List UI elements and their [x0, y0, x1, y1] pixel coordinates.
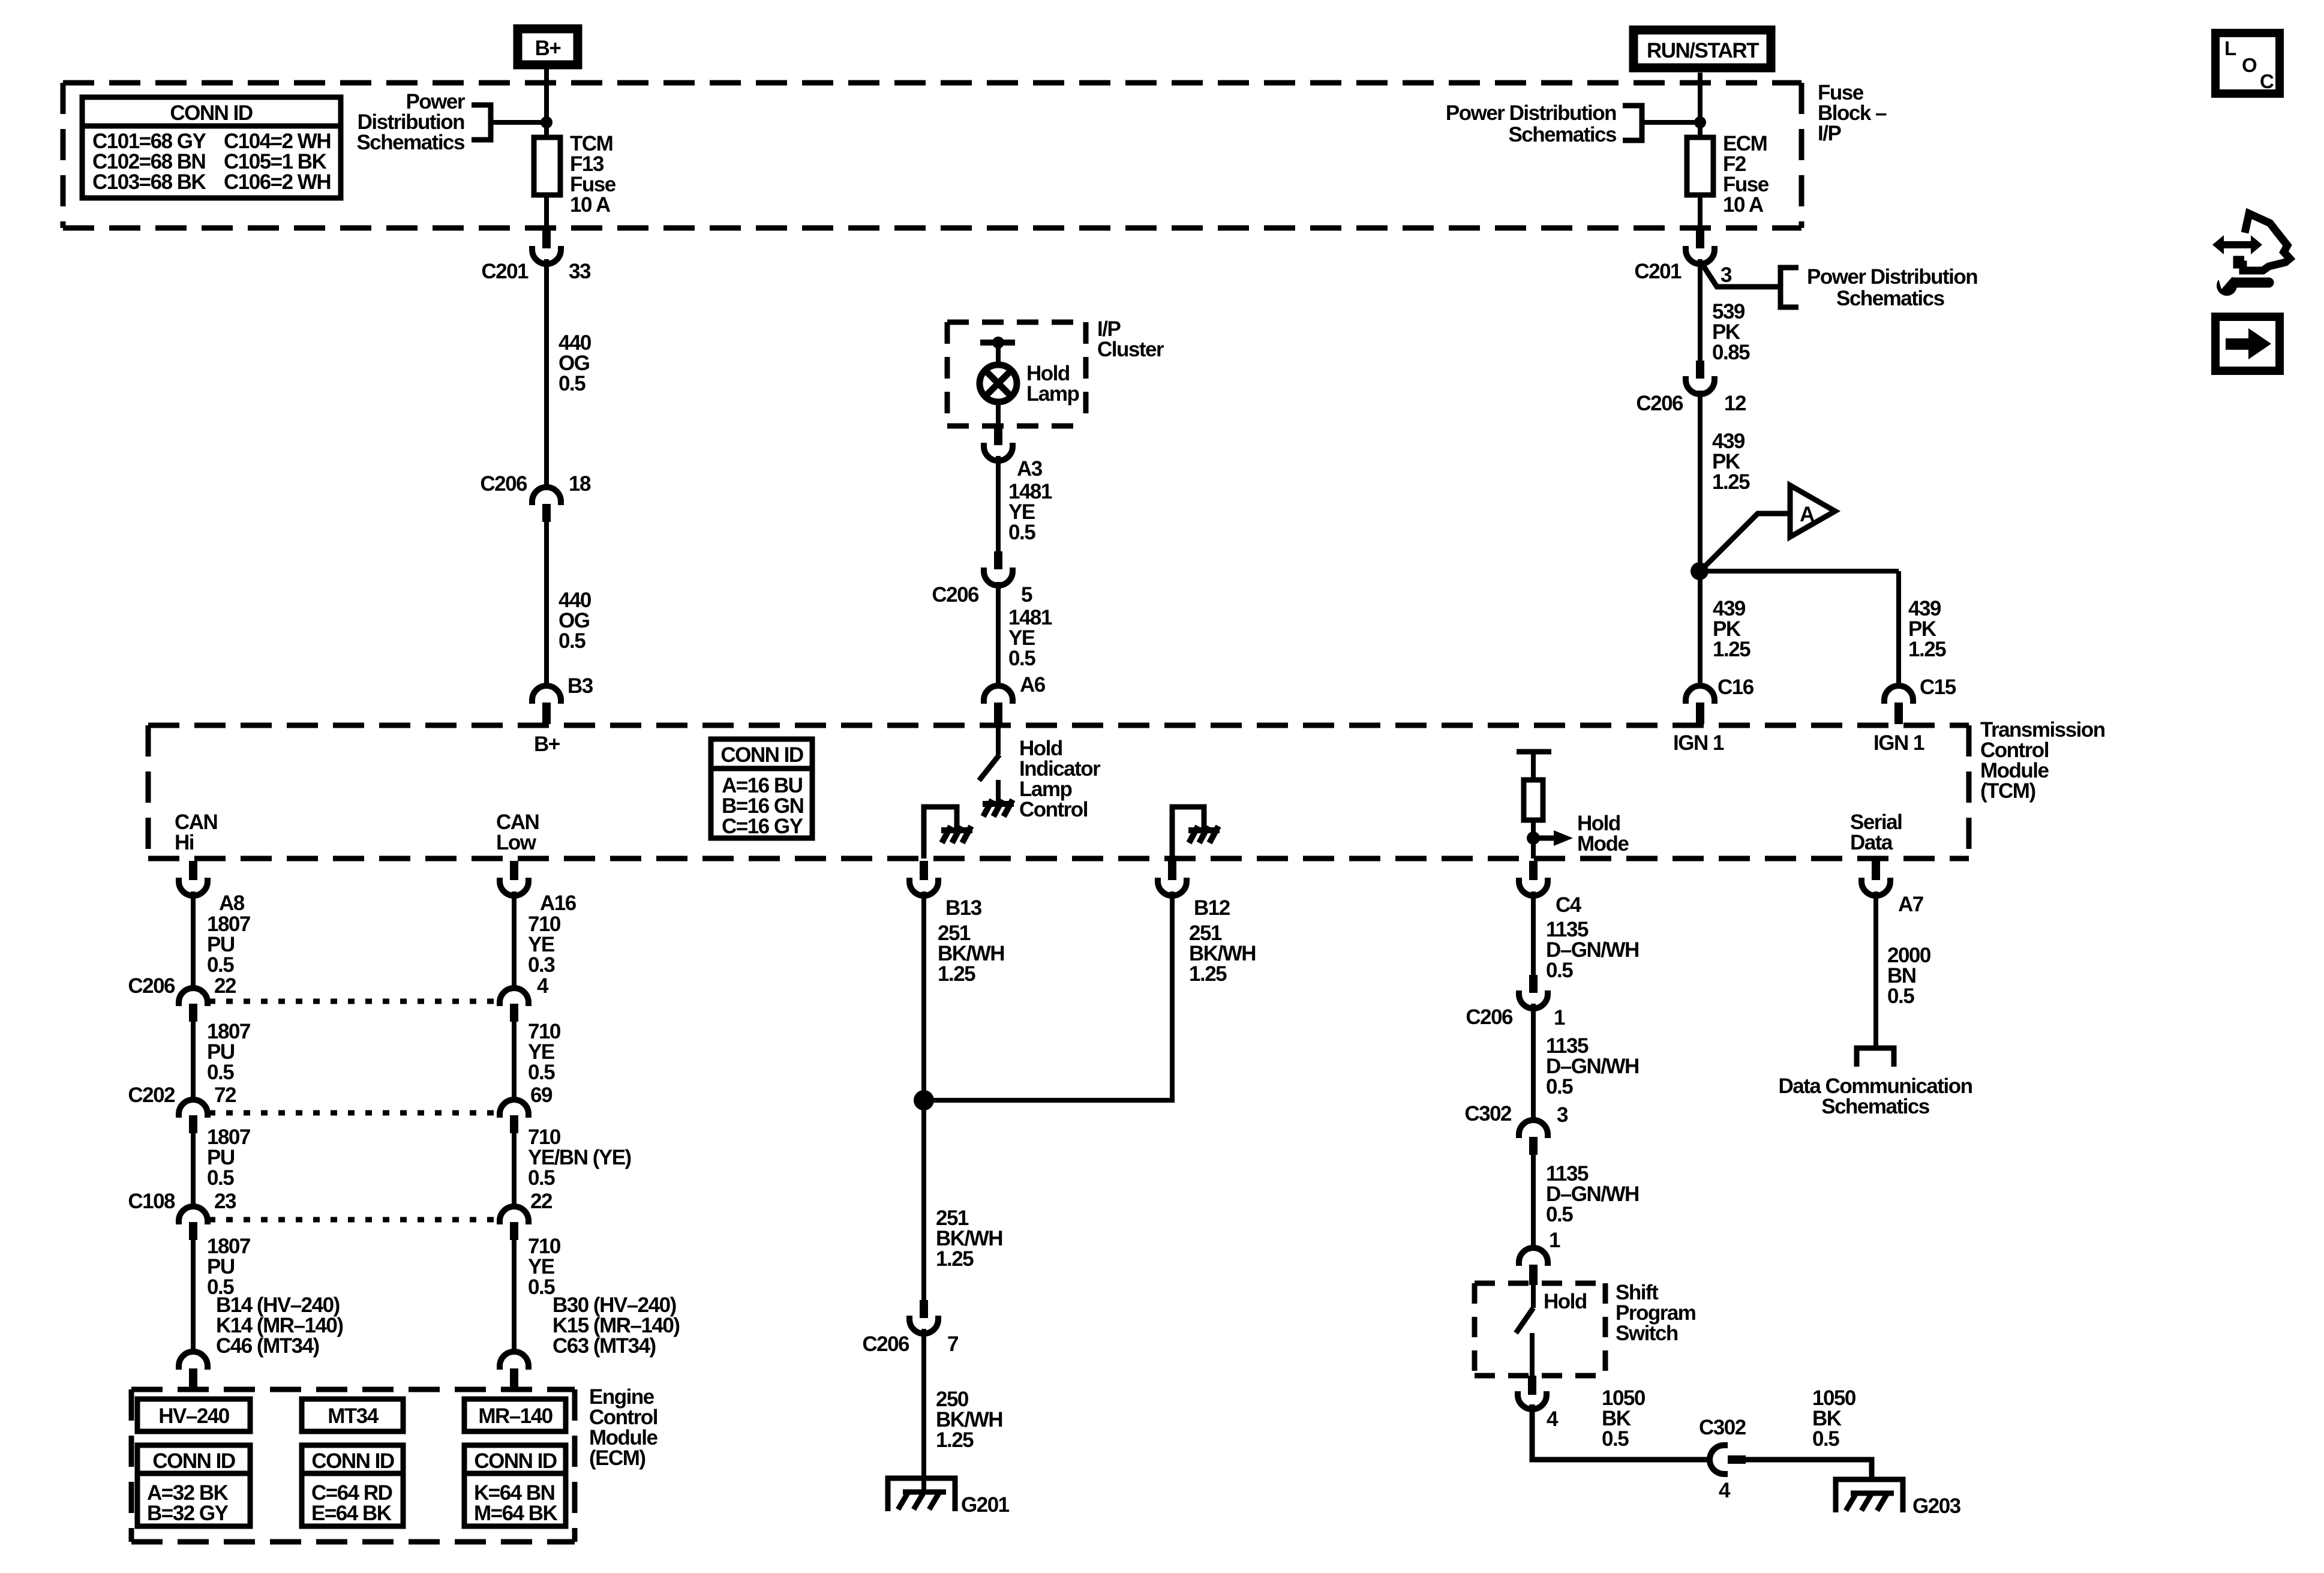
svg-text:0.5: 0.5 [528, 1275, 555, 1299]
bracket to power distribution (right top) [1623, 106, 1642, 140]
wire 539 PK 0.85 [1698, 259, 1703, 361]
svg-text:L: L [2224, 37, 2236, 59]
svg-text:Hi: Hi [175, 831, 194, 854]
label 1807 PU 0.5 (segment 2) [207, 1020, 250, 1107]
label 1807 PU 0.5 (segment 3) [207, 1125, 250, 1213]
wire down to C16 [1698, 571, 1703, 686]
connector C206 pin 1 [1466, 975, 1565, 1029]
ECM CONN ID table HV-240 [137, 1445, 250, 1526]
svg-text:3: 3 [1557, 1103, 1568, 1127]
svg-text:72: 72 [214, 1083, 236, 1107]
svg-text:0.5: 0.5 [559, 629, 585, 653]
TCM pin C4 [1519, 861, 1582, 917]
wire bracket to B+ feed [491, 120, 547, 125]
label 539 PK 0.85 [1712, 300, 1750, 364]
off-page triangle A connector [1704, 485, 1835, 568]
TCM pin C15 [1884, 676, 1956, 724]
svg-text:C15: C15 [1920, 676, 1956, 699]
svg-text:7: 7 [947, 1332, 958, 1356]
svg-text:0.5: 0.5 [207, 1166, 234, 1190]
power node RUN/START box [1634, 30, 1771, 68]
ground return B13 inside TCM [924, 807, 972, 858]
wire 1807 PU segment 1 [191, 891, 196, 988]
svg-text:(ECM): (ECM) [589, 1446, 645, 1470]
label 439 PK 1.25 (C15) [1908, 597, 1946, 661]
connector C206 pin 12 [1636, 361, 1746, 415]
svg-text:0.5: 0.5 [207, 1061, 234, 1084]
svg-text:HV–240: HV–240 [158, 1404, 230, 1428]
label Power Distribution Schematics (mid right) [1807, 265, 1977, 310]
svg-text:B3: B3 [568, 674, 593, 698]
svg-text:1.25: 1.25 [936, 1428, 974, 1452]
svg-text:Hold: Hold [1544, 1290, 1587, 1313]
forward arrow reference box [2215, 317, 2280, 371]
svg-text:A7: A7 [1898, 893, 1923, 916]
wire 1807 PU segment 2 [191, 1022, 196, 1100]
label 710 YE/BN (YE) 0.5 (segment 3) [528, 1125, 631, 1213]
cluster connector pin A3 [984, 427, 1043, 481]
svg-text:CONN ID: CONN ID [152, 1449, 235, 1473]
svg-text:O: O [2242, 54, 2257, 76]
wire 1050 BK elbow to C302-4 [1532, 1404, 1710, 1460]
svg-text:22: 22 [214, 974, 236, 998]
wire 440 OG 0.5 lower [544, 522, 549, 686]
label TCM F13 Fuse 10A [570, 132, 616, 217]
label 710 YE 0.5 (segment 4) and ECM pins [528, 1235, 680, 1358]
svg-text:CONN ID: CONN ID [474, 1449, 557, 1473]
wire F13 to C201-33 [544, 195, 549, 232]
svg-text:C302: C302 [1464, 1102, 1512, 1125]
wire 1050 BK to G203 [1739, 1460, 1872, 1482]
svg-text:Control: Control [1019, 798, 1088, 821]
label 1807 PU 0.5 (segment 4) and ECM pins [207, 1235, 343, 1358]
svg-text:0.5: 0.5 [1546, 1075, 1573, 1098]
TCM CONN ID table [711, 739, 812, 838]
svg-text:C: C [2260, 70, 2274, 92]
label 251 BK/WH 1.25 (B12) [1189, 921, 1256, 986]
wire 710 YE segment 2 [512, 1022, 517, 1100]
svg-text:C106=2 WH: C106=2 WH [224, 170, 331, 194]
wire bracket to RUN/START feed [1642, 120, 1700, 125]
svg-text:0.5: 0.5 [528, 1061, 555, 1084]
svg-text:C206: C206 [480, 472, 527, 496]
connector C302 pin 3 [1464, 1102, 1568, 1155]
svg-text:(TCM): (TCM) [1980, 779, 2035, 803]
label 1050 BK 0.5 (right) [1812, 1386, 1856, 1451]
svg-text:18: 18 [569, 472, 591, 496]
wire B13 down to junction [921, 891, 926, 1100]
svg-text:CONN ID: CONN ID [311, 1449, 394, 1473]
junction dot at RUN/START feed [1694, 116, 1706, 128]
label 1135 D-GN/WH 0.5 (lower) [1546, 1162, 1639, 1226]
connector C206 pin 22 (CAN Hi) [179, 988, 208, 1022]
switch connector pin 4 [1518, 1376, 1559, 1431]
svg-text:CONN ID: CONN ID [170, 101, 253, 125]
TCM pin B3 [532, 674, 593, 724]
svg-text:C202: C202 [128, 1083, 175, 1107]
junction dot hold mode [1527, 831, 1540, 845]
connector C201 pin 3 [1634, 230, 1732, 287]
engine control module ECM dashed box [131, 1389, 575, 1542]
svg-text:C16: C16 [1718, 676, 1754, 699]
wire bar to lamp [996, 343, 1001, 365]
fuse block I/P dashed box [63, 83, 1801, 228]
svg-text:C302: C302 [1699, 1416, 1746, 1439]
label 710 YE 0.5 (segment 2) [528, 1020, 561, 1107]
connector C108 pin 22 (CAN Low) [500, 1206, 529, 1240]
ECM connector MT34 name box [302, 1399, 403, 1431]
branch wire to power distribution (right) [1704, 266, 1780, 287]
svg-text:4: 4 [1719, 1479, 1731, 1502]
svg-text:C206: C206 [128, 974, 175, 998]
fuse block CONN ID table [82, 97, 341, 198]
connector C206 pin 5 [932, 551, 1032, 607]
svg-text:IGN 1: IGN 1 [1673, 731, 1724, 755]
ECM CONN ID table MT34 [302, 1445, 403, 1526]
off-page connector to data communication [1857, 1048, 1894, 1067]
junction dot ignition feed [1691, 562, 1709, 580]
ECM connector HV-240 name box [137, 1399, 250, 1431]
svg-text:A8: A8 [219, 891, 245, 915]
svg-text:Power Distribution: Power Distribution [1807, 265, 1977, 289]
svg-text:Switch: Switch [1616, 1322, 1678, 1345]
hold indicator lamp control switch inside TCM [979, 724, 1014, 816]
svg-text:B13: B13 [945, 896, 982, 920]
svg-text:1.25: 1.25 [1712, 470, 1750, 494]
svg-text:Lamp: Lamp [1026, 382, 1079, 406]
wire 1135 to C206-1 [1531, 891, 1536, 975]
transmission control module TCM dashed box [148, 725, 1969, 858]
wire 1807 PU segment 4 [191, 1240, 196, 1352]
svg-text:Schematics: Schematics [1821, 1095, 1930, 1118]
connector C206 pin 18 [480, 472, 591, 522]
label 1135 D-GN/WH 0.5 (upper) [1546, 918, 1639, 982]
wire 1481 YE 0.5 upper [996, 456, 1001, 551]
bracket power distribution schematics (mid right) [1780, 268, 1798, 307]
label 1481 YE 0.5 (lower) [1008, 606, 1052, 670]
svg-text:1.25: 1.25 [1908, 638, 1946, 661]
connector C202 pin 72 (CAN Hi) [179, 1100, 208, 1133]
label 1135 D-GN/WH 0.5 (middle) [1546, 1034, 1639, 1098]
label 2000 BN 0.5 [1887, 944, 1931, 1008]
svg-text:Power Distribution: Power Distribution [1446, 101, 1616, 125]
label I/P Cluster [1097, 317, 1164, 361]
svg-text:1.25: 1.25 [1189, 962, 1227, 986]
ground G201 [888, 1478, 1010, 1517]
wire down to C15 [1896, 571, 1901, 686]
svg-text:B12: B12 [1194, 896, 1230, 920]
label Power Distribution Schematics (right top) [1446, 101, 1617, 146]
svg-text:0.5: 0.5 [1546, 959, 1573, 982]
svg-text:Data: Data [1850, 831, 1893, 854]
svg-text:Mode: Mode [1577, 832, 1629, 855]
svg-text:12: 12 [1724, 392, 1746, 415]
label ECM F2 Fuse 10A [1723, 132, 1769, 217]
ECM connector entry CAN Hi [179, 1352, 208, 1389]
wire branch to C15 [1700, 569, 1899, 574]
svg-text:RUN/START: RUN/START [1647, 39, 1759, 62]
label 439 PK 1.25 (C16) [1713, 597, 1750, 661]
svg-text:C206: C206 [1466, 1005, 1513, 1029]
dotted harness line C108 [209, 1217, 499, 1223]
TCM pin A7 [1861, 861, 1923, 916]
svg-text:10 A: 10 A [1723, 193, 1764, 217]
svg-text:1.25: 1.25 [938, 962, 975, 986]
svg-text:0.5: 0.5 [559, 372, 585, 395]
svg-text:5: 5 [1021, 583, 1032, 607]
svg-text:0.85: 0.85 [1712, 341, 1750, 364]
vehicle silhouette icon with arrow and wrench [2212, 214, 2290, 296]
hold lamp symbol [980, 365, 1017, 402]
svg-text:0.5: 0.5 [1008, 647, 1035, 670]
svg-text:10 A: 10 A [570, 193, 611, 217]
svg-text:B+: B+ [535, 37, 562, 60]
svg-text:C206: C206 [862, 1332, 909, 1356]
svg-text:B=32 GY: B=32 GY [147, 1502, 229, 1525]
label CAN Low [496, 810, 539, 854]
svg-text:C206: C206 [932, 583, 979, 607]
TCM pin A6 [984, 673, 1046, 724]
wire 710 YE/BN segment 3 [512, 1133, 517, 1206]
svg-text:33: 33 [569, 260, 591, 283]
wire lamp to cluster pin [996, 402, 1001, 427]
shift program switch dashed box [1475, 1283, 1605, 1376]
connector C108 pin 23 (CAN Hi) [179, 1206, 208, 1240]
svg-text:3: 3 [1721, 263, 1732, 287]
I/P cluster dashed box [947, 322, 1086, 426]
svg-text:23: 23 [214, 1190, 236, 1213]
svg-text:C4: C4 [1556, 893, 1582, 917]
wire 1481 YE 0.5 lower [996, 582, 1001, 686]
connector C206 pin 7 [862, 1300, 958, 1356]
svg-text:C103=68 BK: C103=68 BK [92, 170, 206, 194]
LOC reference box [2215, 33, 2280, 94]
TCM pin B12 [1158, 861, 1230, 920]
label 440 OG 0.5 (upper) [559, 331, 591, 395]
junction dot ground bus [914, 1090, 934, 1110]
bracket to power distribution (left) [472, 105, 491, 140]
label Shift Program Switch [1616, 1281, 1695, 1345]
wire 710 YE segment 1 [512, 891, 517, 988]
svg-text:1.25: 1.25 [1713, 638, 1750, 661]
svg-text:Schematics: Schematics [1508, 123, 1617, 146]
svg-text:0.5: 0.5 [1008, 521, 1035, 544]
lamp feed bar and junction dot [980, 337, 1015, 349]
svg-text:0.5: 0.5 [528, 1166, 555, 1190]
svg-text:A16: A16 [540, 891, 577, 915]
label Serial Data [1850, 810, 1902, 854]
label A8 1807 PU 0.5 22 [207, 912, 250, 998]
wire junction bus horizontal [924, 1098, 1172, 1103]
wire 439 PK 1.25 to junction [1698, 391, 1703, 571]
fuse F13 TCM 10A [534, 137, 560, 195]
label Transmission Control Module TCM [1980, 718, 2105, 803]
svg-text:MT34: MT34 [328, 1404, 379, 1428]
label 440 OG 0.5 (lower) [559, 589, 591, 653]
connector C302 pin 4 [1699, 1416, 1746, 1502]
svg-text:G203: G203 [1912, 1494, 1961, 1518]
wire B+ to fuse F13 [544, 69, 549, 137]
power node B+ box [518, 29, 578, 65]
svg-text:0.5: 0.5 [1546, 1203, 1573, 1226]
wire 710 YE segment 4 [512, 1240, 517, 1352]
TCM pin A8 [179, 861, 245, 915]
svg-text:M=64 BK: M=64 BK [474, 1502, 558, 1525]
label Hold Mode [1577, 812, 1629, 855]
ground return B12 inside TCM [1172, 807, 1220, 858]
svg-text:1: 1 [1549, 1229, 1560, 1252]
TCM pin B13 [909, 861, 982, 920]
svg-text:E=64 BK: E=64 BK [311, 1502, 392, 1525]
connector C202 pin 69 (CAN Low) [500, 1100, 529, 1133]
wire RUN/START to fuse F2 [1698, 73, 1703, 137]
svg-text:CONN ID: CONN ID [720, 743, 803, 767]
label Hold Indicator Lamp Control [1019, 737, 1101, 821]
label Engine Control Module ECM [589, 1385, 658, 1470]
svg-text:C108: C108 [128, 1190, 175, 1213]
ground G203 [1836, 1479, 1961, 1518]
label 1481 YE 0.5 (upper) [1008, 480, 1052, 544]
wire 1135 to shift program switch [1531, 1155, 1536, 1248]
wire 2000 BN 0.5 [1873, 891, 1878, 1048]
fuse block CONN ID entries [92, 130, 331, 194]
hold mode driver resistor inside TCM [1517, 752, 1551, 858]
svg-text:C201: C201 [1634, 260, 1682, 283]
TCM CONN ID entries [722, 774, 803, 838]
label CAN Hi [175, 810, 217, 854]
svg-text:Cluster: Cluster [1097, 338, 1164, 361]
wire 251 BK/WH to C206-7 [921, 1100, 926, 1300]
label A16 710 YE 0.3 4 [528, 912, 561, 998]
svg-text:IGN 1: IGN 1 [1873, 731, 1924, 755]
hold mode arrow [1533, 836, 1555, 841]
wire 1807 PU segment 3 [191, 1133, 196, 1206]
svg-text:B+: B+ [534, 733, 560, 756]
switch connector pin 1 [1519, 1248, 1548, 1285]
label Power Distribution Schematics (left) [356, 90, 465, 154]
svg-text:I/P: I/P [1818, 122, 1841, 145]
label Hold Lamp [1026, 362, 1079, 406]
ECM CONN ID table MR-140 [464, 1445, 566, 1526]
svg-text:0.5: 0.5 [207, 953, 234, 977]
svg-text:C63 (MT34): C63 (MT34) [553, 1334, 656, 1358]
svg-text:A3: A3 [1017, 457, 1043, 481]
dotted harness line C206 [209, 999, 499, 1004]
connector C201 pin 33 [481, 230, 591, 283]
junction dot at B+ feed [541, 116, 553, 128]
wire F2 to C201-3 [1698, 195, 1703, 232]
svg-text:C46 (MT34): C46 (MT34) [216, 1334, 319, 1358]
TCM pin C16 [1686, 676, 1754, 724]
ECM connector MR-140 name box [464, 1399, 566, 1431]
dotted harness line C202 [209, 1110, 499, 1116]
ECM connector entry CAN Low [500, 1352, 529, 1389]
svg-text:69: 69 [530, 1083, 553, 1107]
hold switch blade [1516, 1285, 1533, 1377]
wire 250 BK/WH to G201 [921, 1329, 926, 1494]
svg-text:C206: C206 [1636, 392, 1683, 415]
svg-text:22: 22 [530, 1190, 553, 1213]
label 1050 BK 0.5 (left) [1602, 1386, 1646, 1451]
label 251 BK/WH 1.25 (below junction) [936, 1206, 1002, 1271]
svg-text:0.5: 0.5 [1602, 1427, 1629, 1451]
svg-text:C201: C201 [481, 260, 529, 283]
svg-text:MR–140: MR–140 [478, 1404, 553, 1428]
svg-text:C=16 GY: C=16 GY [722, 815, 803, 838]
svg-text:4: 4 [537, 974, 549, 998]
svg-text:A6: A6 [1020, 673, 1046, 697]
label 250 BK/WH 1.25 [936, 1388, 1002, 1452]
svg-text:Low: Low [496, 831, 537, 854]
label 251 BK/WH 1.25 (B13) [938, 921, 1004, 986]
svg-text:0.5: 0.5 [1887, 984, 1914, 1008]
svg-text:0.5: 0.5 [1812, 1427, 1839, 1451]
svg-text:1: 1 [1554, 1006, 1565, 1029]
fuse F2 ECM 10A [1687, 137, 1713, 195]
svg-text:A: A [1800, 503, 1815, 526]
label Data Communication Schematics [1778, 1074, 1972, 1118]
svg-text:1.25: 1.25 [936, 1247, 974, 1271]
wire B12 down to junction bus [1170, 891, 1175, 1103]
wire 440 OG 0.5 upper [544, 259, 549, 487]
wire 1135 to C302-3 [1531, 1004, 1536, 1120]
svg-text:G201: G201 [961, 1493, 1010, 1517]
TCM pin A16 [500, 861, 577, 915]
svg-text:4: 4 [1547, 1407, 1559, 1431]
svg-text:Schematics: Schematics [1836, 287, 1945, 310]
svg-text:Schematics: Schematics [356, 131, 465, 154]
label Fuse Block - I/P [1818, 81, 1887, 145]
connector C206 pin 4 (CAN Low) [500, 988, 529, 1022]
label 439 PK 1.25 (above junction) [1712, 430, 1750, 494]
svg-text:0.3: 0.3 [528, 953, 555, 977]
